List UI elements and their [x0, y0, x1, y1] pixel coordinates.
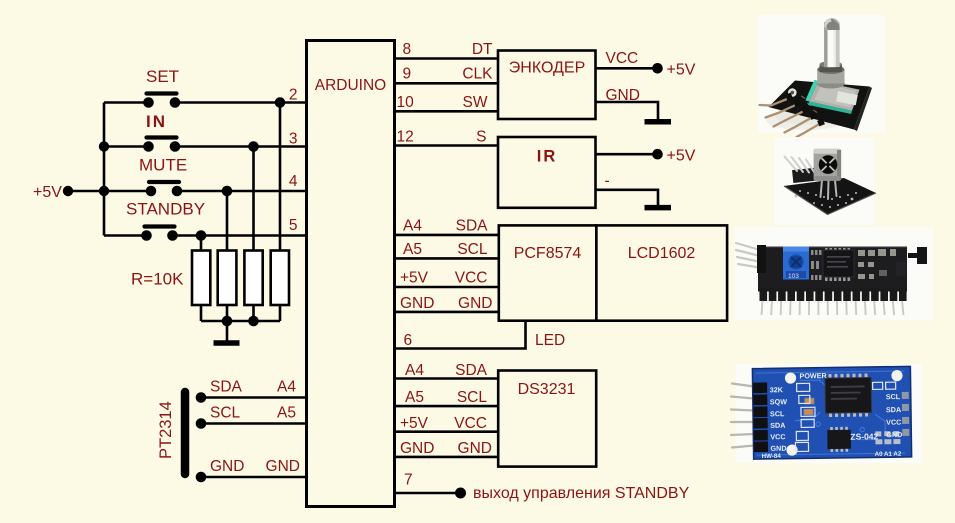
svg-text:VCC: VCC	[886, 418, 901, 427]
wire resistor common	[201, 320, 280, 323]
wire +5V to bus	[69, 190, 105, 193]
block PCF8574	[499, 225, 597, 320]
node IR +5V	[652, 149, 663, 160]
svg-text:A5: A5	[403, 241, 422, 258]
svg-text:GND: GND	[266, 458, 300, 475]
wire A4 SDA (LCD)	[395, 234, 499, 237]
svg-text:SCL: SCL	[886, 392, 901, 401]
PCB	[769, 81, 870, 130]
wire pin12 S	[395, 144, 499, 147]
button SET	[143, 94, 180, 108]
svg-text:ЭНКОДЕР: ЭНКОДЕР	[509, 60, 585, 77]
wire pin7 output	[395, 492, 457, 495]
svg-text:+5V: +5V	[400, 270, 429, 287]
silkscreen specks	[801, 95, 805, 99]
svg-text:PCF8574: PCF8574	[514, 245, 582, 262]
svg-text:32K: 32K	[770, 385, 784, 394]
wire A5 SCL (LCD)	[395, 257, 499, 260]
wire R1 bottom	[200, 305, 203, 321]
svg-text:SET: SET	[146, 67, 179, 86]
photo: IR receiver module	[775, 137, 876, 225]
svg-text:SCL: SCL	[210, 405, 241, 422]
header block	[792, 168, 815, 183]
wire row5 STANDBY to pin5	[177, 234, 307, 237]
svg-text:A4: A4	[405, 362, 424, 379]
svg-text:GND: GND	[400, 295, 434, 312]
svg-text:10: 10	[397, 94, 415, 111]
mounting holes	[785, 372, 796, 383]
svg-text:SCL: SCL	[457, 241, 488, 258]
shaft	[824, 22, 840, 67]
wire R3 bottom	[252, 305, 255, 321]
wire PT2314 SCL	[201, 422, 307, 425]
right connector	[908, 253, 920, 258]
wire +5V VCC (LCD)	[395, 286, 499, 289]
resistor R4	[271, 251, 289, 306]
svg-text:IR: IR	[537, 148, 558, 166]
svg-text:VCC: VCC	[770, 432, 785, 441]
wire +5V VCC (DS)	[395, 430, 499, 433]
sticker	[836, 91, 858, 105]
svg-text:SDA: SDA	[770, 421, 785, 430]
svg-text:STANDBY: STANDBY	[126, 200, 205, 219]
svg-text:LED: LED	[535, 332, 565, 349]
svg-text:6: 6	[404, 332, 413, 349]
svg-text:+5V: +5V	[33, 184, 62, 201]
node PT2314 GND	[196, 472, 207, 483]
legs below receiver	[821, 180, 837, 199]
blue PCB	[752, 366, 911, 460]
left pins	[736, 243, 762, 268]
svg-text:2: 2	[289, 87, 298, 104]
hole	[788, 88, 797, 97]
wire A4 SDA (DS)	[395, 377, 499, 380]
header pins	[760, 288, 907, 301]
node PT2314 SCL	[196, 418, 207, 429]
wire GND GND (DS)	[395, 456, 499, 459]
encoder base top face	[809, 81, 859, 111]
svg-text:MUTE: MUTE	[139, 156, 187, 175]
svg-text:GND: GND	[210, 458, 244, 475]
svg-text:-: -	[605, 173, 610, 190]
wire R2 bottom	[226, 305, 229, 321]
wire IR +5V	[596, 153, 654, 156]
svg-text:A5: A5	[405, 389, 424, 406]
node pin7 dot	[455, 488, 466, 499]
svg-text:выход управления STANDBY: выход управления STANDBY	[473, 485, 690, 502]
svg-text:VCC: VCC	[455, 270, 488, 287]
left pin header blocks	[753, 382, 768, 452]
right silkscreen	[858, 249, 896, 279]
svg-text:SDA: SDA	[210, 379, 243, 396]
node bus row4	[99, 186, 109, 196]
wire A5 SCL (DS)	[395, 405, 499, 408]
metal can	[817, 79, 845, 89]
svg-text:9: 9	[403, 66, 412, 83]
resistor R1	[192, 251, 210, 306]
svg-text:+5V: +5V	[667, 62, 696, 79]
node pin5 junction	[196, 230, 207, 241]
svg-text:VCC: VCC	[454, 415, 487, 432]
white component outlines	[795, 382, 897, 451]
ground resistors	[214, 340, 240, 346]
svg-text:12: 12	[397, 129, 414, 146]
big IC	[828, 374, 868, 418]
wire pin10 SW	[395, 110, 499, 113]
pins	[760, 99, 819, 137]
svg-text:SCL: SCL	[457, 389, 488, 406]
wire row2 bus to SET	[104, 101, 144, 104]
button IN	[143, 138, 180, 152]
svg-text:8: 8	[403, 41, 412, 58]
svg-text:A4: A4	[277, 379, 296, 396]
svg-text:GND: GND	[458, 440, 492, 457]
svg-text:SDA: SDA	[455, 362, 488, 379]
wire row2 SET to pin2	[179, 101, 307, 104]
svg-text:SDA: SDA	[456, 218, 489, 235]
wire row4 MUTE to pin4	[181, 190, 307, 193]
svg-text:GND: GND	[400, 440, 434, 457]
block IR	[498, 137, 596, 208]
photo: DS3231 module	[731, 364, 922, 463]
wire PT2314 GND	[201, 476, 307, 479]
svg-text:+5V: +5V	[400, 415, 429, 432]
svg-text:4: 4	[289, 173, 298, 190]
svg-text:POWER: POWER	[799, 371, 827, 380]
svg-text:S: S	[476, 129, 486, 146]
wire pin6 LED	[395, 321, 526, 349]
wire pin9 CLK	[395, 82, 499, 85]
svg-text:VCC: VCC	[606, 50, 639, 67]
silkscreen texts	[760, 370, 902, 460]
svg-text:ZS-042: ZS-042	[850, 431, 878, 441]
svg-text:R=10K: R=10K	[131, 270, 184, 289]
node pin4 junction	[222, 186, 233, 197]
ground encoder	[645, 119, 672, 125]
svg-text:5: 5	[289, 217, 298, 234]
svg-text:GND: GND	[458, 295, 492, 312]
svg-text:ARDUINO: ARDUINO	[315, 77, 386, 94]
svg-text:SQW: SQW	[770, 397, 788, 406]
node +5V dot	[63, 186, 73, 196]
wire R3 pullup	[252, 147, 255, 251]
left header legs	[731, 384, 754, 448]
soft shadow	[766, 110, 846, 130]
PT2314 bus bar	[181, 392, 190, 474]
svg-text:7: 7	[404, 472, 413, 489]
ground IR	[645, 205, 672, 211]
pins up-left	[785, 157, 816, 174]
IC	[825, 248, 850, 281]
node resistor common A	[222, 316, 233, 327]
resistor R2	[218, 251, 237, 306]
svg-text:GND: GND	[770, 444, 786, 453]
svg-text:IN: IN	[146, 112, 167, 131]
svg-text:HW-84: HW-84	[762, 453, 782, 460]
button STANDBY	[141, 227, 178, 241]
middle pads	[811, 250, 822, 280]
svg-text:CLK: CLK	[462, 66, 493, 83]
wire row3 IN to pin3	[179, 145, 307, 148]
svg-text:SW: SW	[463, 94, 488, 111]
wire encoder VCC	[596, 67, 654, 70]
photo: LCD I2C backpack	[735, 227, 933, 320]
svg-text:A5: A5	[277, 405, 296, 422]
svg-text:GND: GND	[606, 87, 640, 104]
orange caps	[805, 398, 814, 404]
wire R4 pullup	[279, 103, 282, 251]
node resistor common B	[248, 316, 259, 327]
svg-text:103: 103	[788, 273, 799, 280]
PCB	[758, 247, 907, 292]
wire R4 bottom	[279, 305, 282, 321]
wire row3 bus to IN	[104, 145, 144, 148]
wire ground stem	[226, 321, 229, 341]
wire pin8 DT	[395, 57, 499, 60]
block LCD1602	[596, 225, 727, 320]
resistor R3	[244, 251, 262, 306]
svg-text:A4: A4	[403, 218, 422, 235]
svg-text:SCL: SCL	[770, 409, 785, 418]
wire IR minus	[596, 190, 659, 206]
node pin3 junction	[248, 141, 259, 152]
IR receiver can	[814, 149, 842, 181]
svg-text:A0 A1 A2: A0 A1 A2	[875, 451, 902, 458]
svg-text:3: 3	[289, 131, 298, 148]
wire encoder GND	[596, 102, 659, 120]
node bus row3	[99, 141, 109, 151]
wire R1 pullup	[200, 236, 203, 251]
button MUTE	[146, 182, 183, 196]
wire R2 pullup	[226, 191, 229, 251]
right pads	[902, 392, 910, 436]
encoder base: teal side faces	[805, 80, 818, 102]
svg-text:PT2314: PT2314	[157, 401, 175, 459]
svg-text:LCD1602: LCD1602	[628, 245, 696, 262]
wire row5 bus to STANDBY	[104, 234, 142, 237]
wire PT2314 SDA	[201, 396, 307, 399]
A-pads	[875, 431, 900, 444]
small IC	[830, 427, 848, 452]
shaft D-top	[824, 18, 840, 30]
svg-text:DT: DT	[472, 41, 493, 58]
svg-text:SDA: SDA	[886, 405, 901, 414]
node pin2 junction	[275, 97, 286, 108]
node PT2314 SDA	[196, 392, 207, 403]
photo: rotary encoder module	[758, 15, 885, 137]
op-amp U1: ARDUINO block	[307, 41, 395, 507]
block ЭНКОДЕР	[498, 51, 596, 120]
wire GND GND (LCD)	[395, 311, 499, 314]
node encoder +5V	[652, 63, 663, 74]
blue trimpot	[783, 247, 809, 280]
svg-text:GND: GND	[886, 430, 902, 439]
svg-text:+5V: +5V	[667, 148, 696, 165]
block DS3231	[498, 371, 596, 467]
svg-text:DS3231: DS3231	[518, 381, 576, 398]
wire row4 bus to MUTE	[104, 190, 146, 193]
wire bus vertical	[103, 103, 106, 236]
